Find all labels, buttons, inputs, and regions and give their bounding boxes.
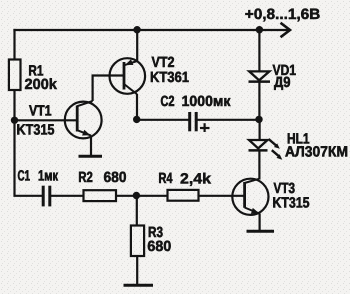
wire left rail lower [15,90,44,196]
diode VD1 [249,71,271,81]
label KT361 [151,72,189,83]
transistor VT3 [232,179,268,215]
capacitor C2 [190,112,197,131]
transistor VT2 [110,58,146,94]
label VT3 [274,183,295,194]
label АЛ307КМ [285,146,347,157]
wire node A to C2 [137,119,189,121]
node junction VT2 emitter at rail [133,26,140,33]
label 1мк [39,170,58,180]
label supply voltage +0,8...1,6В [245,9,319,22]
resistor R4 [168,190,199,201]
label C2 [161,96,174,106]
node junction supply branch [256,26,263,33]
wire node C to HL1 anode [259,120,261,140]
transistor VT1 [65,101,102,138]
label 200k [25,78,57,89]
wire C2 to node C [198,119,259,121]
wire R4 to VT3 base [199,195,245,197]
wire VT1 base [14,119,77,121]
node C junction C2 VD1 HL1 [255,116,262,123]
label KT315 of VT1 [17,124,54,135]
wire node B to R4 [137,195,168,197]
label 1000мк [182,96,230,106]
label VD1 [273,65,296,75]
wire rail to VD1 anode [258,30,260,71]
wire supply arrow line [260,29,289,31]
label 2,4k [181,173,211,186]
ground R3 [124,284,154,287]
label R1 [29,65,43,75]
wire VT2 collector to node A [136,94,138,120]
label HL1 [288,133,309,143]
label VT1 [29,105,51,115]
wire VT1 emitter to ground [90,136,92,157]
wire VT1 collector to VT2 base [93,76,124,102]
wire R2 to node B [116,195,137,197]
wire VT2 emitter to rail [136,30,138,61]
wire HL1 cathode to VT3 collector [258,151,260,180]
label 680 of R3 [148,241,171,251]
wire left rail upper [13,29,15,60]
label R3 [149,227,163,238]
wire VT3 emitter to ground [259,214,261,231]
label C1 [18,170,30,180]
wire node B to R3 [136,196,138,226]
C2 plus polarity mark [200,123,210,132]
label R2 [79,172,92,182]
power arrow head [281,23,291,37]
resistor R2 [84,190,117,201]
label Д9 [274,77,290,90]
wire top rail [13,29,259,31]
node junction VT1 base [11,117,18,124]
node A junction VT2 collector and C2 [133,116,140,123]
ground VT1 emitter [79,155,103,158]
label R4 [159,173,172,183]
LED HL1 [249,139,283,160]
wire VD1 cathode to node C [258,82,260,120]
wire R3 to ground [136,256,138,285]
ground VT3 emitter [247,230,275,233]
label KT315 of VT3 [273,197,309,208]
wire C1 to R2 [50,195,84,197]
resistor R3 [131,226,144,257]
resistor R1 [9,60,21,91]
label 680 of R2 [104,172,126,182]
node B junction R2 R3 R4 [133,192,140,199]
capacitor C1 [43,186,50,207]
label VT2 [152,57,174,67]
